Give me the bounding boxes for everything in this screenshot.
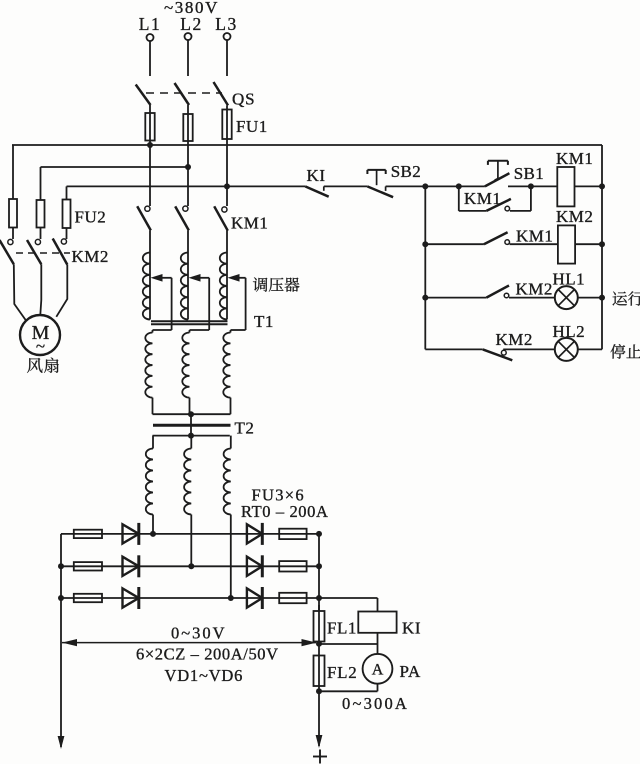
T1 variac winding 3 (220, 253, 227, 320)
node right bus row3 (316, 595, 322, 601)
contact KM2 NC rung4 (483, 349, 513, 360)
contact KM1 main pole 1 (137, 206, 151, 230)
label 0~30V (171, 624, 227, 643)
wire rectifier row 1 (61, 533, 319, 535)
wire L2 drop (187, 40, 189, 76)
dashed linkage KM2 (16, 252, 70, 254)
wire T2 secondary top bus (153, 435, 230, 437)
wire KM1 to T1 coil 3 (226, 230, 228, 252)
node bus1-L1 junction (147, 142, 153, 148)
label T2 (235, 419, 255, 438)
contact KM1 aux rung2 (484, 232, 510, 244)
wire FU2-1 to KM2 (12, 228, 14, 240)
label RT0-200A (241, 502, 329, 521)
svg-text:KM1: KM1 (464, 189, 501, 208)
svg-text:KM1: KM1 (556, 149, 593, 168)
label running (Chinese) (612, 291, 640, 305)
wire KM2-3 to motor (56, 265, 67, 317)
label L2 (180, 14, 202, 34)
label KI contact (307, 166, 326, 185)
node rung2 right (599, 241, 605, 247)
wire KM1 to T1 coil 2 (187, 230, 189, 252)
label FU3x6 (252, 486, 305, 505)
svg-text:L3: L3 (215, 14, 237, 34)
lamp HL2 (555, 338, 578, 361)
node left bus row2 (58, 563, 64, 569)
wire T2 primary star bus (153, 413, 231, 415)
T1 wiper arrow 2 (189, 274, 210, 330)
contact KM2 fan pole 3 (53, 239, 68, 265)
switch QS linkage dashed (146, 92, 222, 94)
label KI relay (402, 619, 421, 638)
contact KM2 fan pole 1 (0, 239, 14, 264)
svg-text:RT0 – 200A: RT0 – 200A (241, 502, 329, 521)
svg-text:~: ~ (36, 337, 45, 356)
wire KM2-2 to motor (40, 264, 41, 315)
svg-text:KM2: KM2 (72, 247, 109, 266)
contact KM2 aux rung3 (486, 286, 509, 298)
label stop (Chinese) (611, 344, 640, 359)
relay KI coil (358, 612, 396, 633)
svg-text:6×2CZ – 200A/50V: 6×2CZ – 200A/50V (136, 645, 279, 664)
T1 variac winding 2 (181, 253, 188, 320)
dimension 0~30V (62, 639, 317, 646)
wire rung4 (425, 348, 602, 350)
node row1-secondary1 (150, 531, 156, 537)
fuse FL2 (314, 644, 325, 692)
switch QS pole 2 blade (175, 83, 190, 105)
label KM1 rung2 (516, 227, 553, 246)
wire KI bottom return (319, 633, 378, 644)
svg-text:T1: T1 (254, 312, 274, 331)
fuse FL1 (314, 605, 325, 644)
wire control left bus (424, 186, 426, 349)
node FL1 bottom (316, 641, 322, 647)
T2 primary winding 1 (145, 330, 152, 414)
fuse row 3 right (279, 593, 306, 603)
fuse row 1 right (279, 529, 306, 539)
node rung1 right (599, 183, 605, 189)
svg-text:FU1: FU1 (236, 117, 268, 136)
T1 core bars (151, 321, 228, 324)
node row2-secondary2 (188, 563, 194, 569)
coil KM2 (558, 225, 575, 263)
motor M fan (20, 315, 60, 356)
contact KM1 self-hold (486, 199, 511, 211)
wire secondary 3 to row 3 (230, 515, 232, 599)
svg-text:PA: PA (400, 662, 421, 681)
terminal L3 (224, 33, 231, 40)
terminal L1 (147, 34, 154, 41)
wire L1 bus to KM1 (149, 145, 151, 206)
lamp HL1 (555, 286, 578, 309)
label T1 (254, 312, 274, 331)
svg-text:KI: KI (402, 619, 421, 638)
fuse FL row 3 left (74, 594, 102, 602)
node SB1 left (456, 183, 462, 189)
fuse FU2 pole 2 (37, 200, 45, 228)
label SB1 (514, 164, 544, 183)
T2 primary winding 2 (182, 330, 189, 414)
contact KM2 fan pole 2 (27, 239, 41, 264)
wire bus2 L2 phase (41, 166, 189, 168)
switch QS pole 3 blade (214, 82, 229, 105)
label FL1 (327, 619, 357, 638)
node rung2 left (422, 241, 428, 247)
pushbutton SB2 actuator (367, 170, 385, 185)
label HL2 (553, 322, 586, 341)
label 6x2CZ-200A/50V (136, 645, 279, 664)
svg-text:SB2: SB2 (391, 162, 421, 181)
label KM2 rung4 (496, 330, 533, 349)
arrow plus output down (316, 735, 323, 748)
T2 secondary winding 3 (224, 436, 231, 515)
svg-text:KM2: KM2 (556, 207, 593, 226)
svg-text:VD1~VD6: VD1~VD6 (165, 666, 244, 685)
wire KM1 to T1 coil 1 (149, 230, 151, 252)
label SB2 (391, 162, 421, 181)
wire L3 bus to KM1 (226, 186, 228, 206)
svg-text:L1: L1 (139, 14, 161, 34)
label QS (232, 90, 255, 109)
wire KI branch top (319, 598, 378, 612)
wire PA bottom return (319, 684, 378, 692)
label FU1 (236, 117, 268, 136)
svg-text:FU2: FU2 (75, 208, 107, 227)
wire bus3 left drop to FU2 (66, 186, 68, 199)
label FL2 (327, 663, 357, 682)
fuse FU2 pole 1 (9, 199, 17, 228)
node rung3 right (599, 295, 605, 301)
label FU2 (75, 208, 107, 227)
node bus3-L3 junction (224, 183, 230, 189)
arrow left bus down (58, 736, 65, 749)
coil KM1 (557, 167, 574, 206)
wire right bus down (601, 145, 603, 349)
node right bus row2 (316, 563, 322, 569)
contact SB2 stop button (367, 186, 485, 197)
contact KI overcurrent (305, 186, 367, 196)
fuse FU1 pole 1 (145, 113, 154, 141)
wire rectifier row 2 (61, 565, 319, 567)
label KM1 self-hold (464, 189, 501, 208)
wire bus1 L1 phase (12, 144, 602, 146)
wire plus output (318, 691, 320, 746)
T2 secondary winding 2 (184, 436, 191, 515)
wire L2 switch to bus (187, 105, 189, 167)
diode VD4 right (247, 523, 262, 545)
wire right DC bus (318, 534, 320, 611)
wire self-hold branch (459, 186, 531, 211)
diode VD6 right (247, 587, 262, 609)
diode VD1 left (123, 523, 139, 545)
svg-text:KI: KI (307, 166, 326, 185)
fuse FU1 pole 2 (183, 114, 192, 141)
svg-text:FL1: FL1 (327, 619, 357, 638)
wire KM2-1 to motor (14, 264, 26, 320)
label VD1~VD6 (165, 666, 244, 685)
label 0~300A (342, 694, 409, 713)
wire bus3 L3 phase / control rung (67, 185, 306, 187)
label KM1 coil (556, 149, 593, 168)
node T2 secondary center (188, 433, 194, 439)
wire bus2 left drop to FU2 (40, 167, 42, 200)
node rung3 left (422, 295, 428, 301)
contact SB1 start button (485, 173, 602, 186)
contact KM1 main pole 2 (175, 206, 189, 230)
T1 wiper arrow 1 (151, 274, 172, 330)
node left bus row3 (58, 595, 64, 601)
pushbutton SB1 actuator (488, 161, 508, 181)
wire L2 bus to KM1 (187, 167, 189, 206)
T1 variac winding 1 (143, 253, 150, 320)
svg-text:SB1: SB1 (514, 164, 544, 183)
fuse FU1 pole 3 (222, 110, 231, 140)
label KM2 coil (556, 207, 593, 226)
wire FU2-3 to KM2 (66, 228, 68, 239)
svg-text:T2: T2 (235, 419, 255, 438)
node FL2 bottom (316, 688, 322, 694)
wire FU2-2 to KM2 (40, 228, 42, 240)
node bus2-L2 junction (185, 164, 191, 170)
T2 secondary winding 1 (146, 436, 153, 515)
fuse row 2 right (279, 561, 306, 571)
label L3 (215, 14, 237, 34)
svg-text:KM1: KM1 (231, 214, 268, 233)
label fan (Chinese) (27, 358, 59, 373)
T2 primary winding 3 (223, 330, 230, 414)
wire L1 switch to bus (149, 105, 151, 145)
svg-text:A: A (372, 662, 384, 679)
diode VD5 right (247, 555, 262, 577)
label HL1 (553, 270, 586, 289)
wire rectifier row 3 (61, 597, 319, 599)
diode VD3 left (123, 587, 139, 609)
svg-text:KM1: KM1 (516, 227, 553, 246)
node right bus row1 (316, 531, 322, 537)
contact KM1 main pole 3 (214, 206, 228, 230)
wire secondary 2 to row 2 (190, 515, 192, 567)
wire L3 switch to bus (226, 105, 228, 186)
fuse FL row 1 left (74, 530, 102, 538)
wire bus1 left drop to FU2 (12, 145, 14, 199)
fuse FL row 2 left (74, 562, 102, 570)
node SB1 right (528, 183, 534, 189)
wire L1 drop (149, 41, 151, 76)
wire L3 drop (226, 40, 228, 76)
wire rung2 (425, 243, 602, 245)
T1 wiper arrow 3 (228, 274, 246, 330)
terminal L2 (185, 33, 192, 40)
wire star link (190, 414, 192, 435)
switch QS pole 1 blade (136, 85, 151, 106)
node T2 primary star (188, 411, 194, 417)
svg-text:KM2: KM2 (516, 280, 553, 299)
label KM2 rung3 (516, 280, 553, 299)
fuse FU2 pole 3 (63, 200, 71, 229)
label KM1 main (231, 214, 268, 233)
node control left top (422, 183, 428, 189)
wire left DC bus (60, 534, 62, 747)
label ~380V (164, 0, 219, 17)
wire secondary 1 to row 1 (152, 515, 154, 534)
svg-text:0~300A: 0~300A (342, 694, 409, 713)
label PA (400, 662, 421, 681)
T2 core bar (153, 424, 231, 427)
svg-text:0~30V: 0~30V (171, 624, 227, 643)
label L1 (139, 14, 161, 34)
label KM2 fan (72, 247, 109, 266)
svg-text:FL2: FL2 (327, 663, 357, 682)
diode VD2 left (123, 555, 139, 577)
plus sign (313, 750, 327, 764)
node row3-secondary3 (228, 595, 234, 601)
svg-text:HL2: HL2 (553, 322, 586, 341)
svg-text:HL1: HL1 (553, 270, 586, 289)
label voltage-regulator (Chinese) (253, 277, 300, 291)
wire rung3 (425, 297, 602, 299)
ammeter PA (363, 644, 393, 684)
svg-text:QS: QS (232, 90, 255, 109)
svg-text:KM2: KM2 (496, 330, 533, 349)
svg-text:L2: L2 (180, 14, 202, 34)
